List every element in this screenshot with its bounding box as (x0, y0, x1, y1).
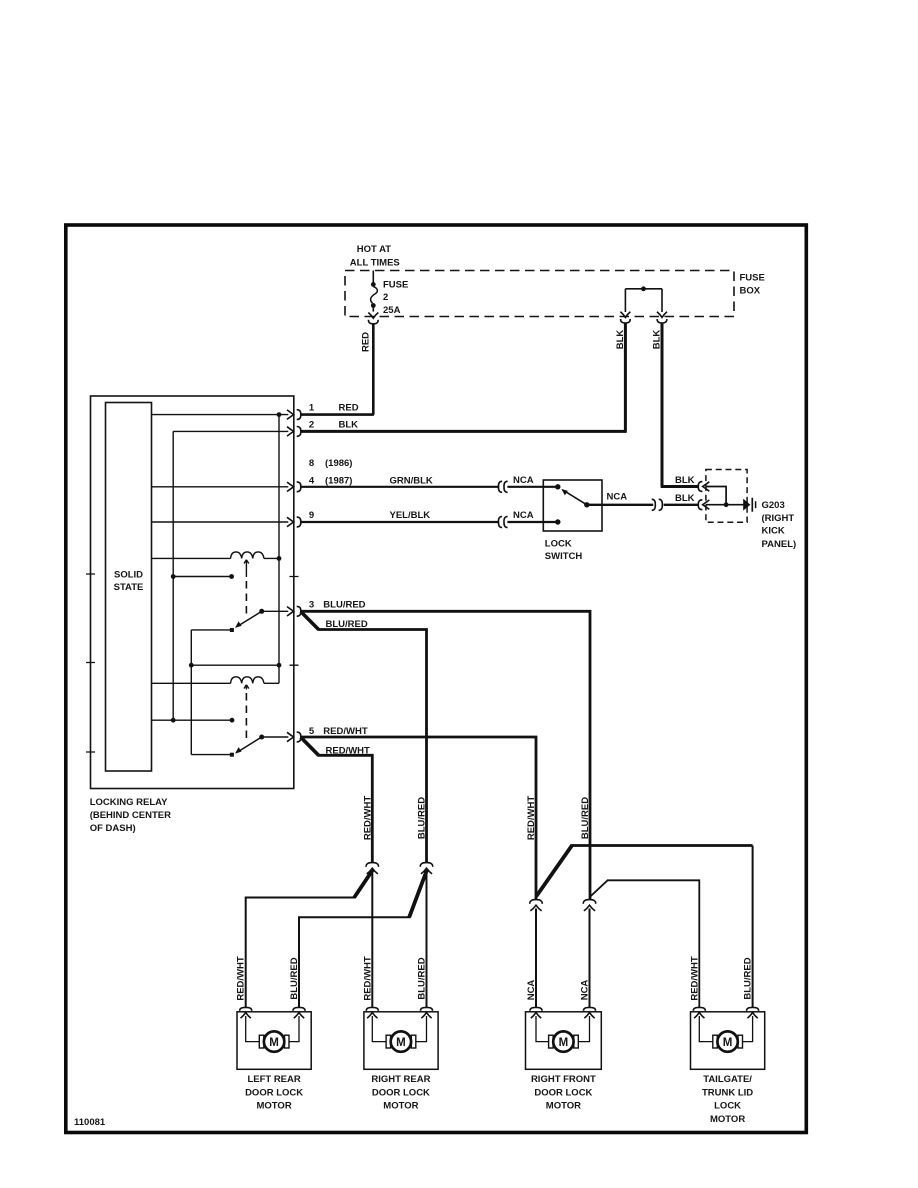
svg-text:NCA: NCA (513, 475, 534, 486)
svg-text:(1986): (1986) (325, 458, 352, 469)
svg-text:M: M (396, 1037, 406, 1049)
svg-text:RIGHT FRONT: RIGHT FRONT (531, 1074, 596, 1085)
svg-text:4: 4 (309, 475, 315, 486)
svg-text:BLU/RED: BLU/RED (326, 619, 368, 630)
svg-text:KICK: KICK (762, 526, 785, 537)
svg-text:RED/WHT: RED/WHT (236, 956, 247, 1001)
svg-text:5: 5 (309, 726, 315, 737)
svg-text:GRN/BLK: GRN/BLK (390, 475, 433, 486)
svg-text:BLK: BLK (339, 419, 359, 430)
svg-text:(RIGHT: (RIGHT (762, 513, 795, 524)
svg-text:LOCK: LOCK (545, 539, 572, 550)
svg-text:YEL/BLK: YEL/BLK (390, 510, 431, 521)
svg-text:2: 2 (383, 292, 388, 303)
svg-text:NCA: NCA (526, 980, 537, 1001)
svg-text:LOCKING RELAY: LOCKING RELAY (90, 797, 168, 808)
svg-text:RED/WHT: RED/WHT (326, 746, 371, 757)
svg-text:BLK: BLK (675, 493, 695, 504)
svg-text:DOOR LOCK: DOOR LOCK (534, 1087, 592, 1098)
svg-text:MOTOR: MOTOR (257, 1101, 292, 1112)
svg-text:2: 2 (309, 419, 314, 430)
svg-text:PANEL): PANEL) (762, 539, 797, 550)
svg-text:FUSE: FUSE (740, 273, 765, 284)
svg-text:3: 3 (309, 599, 314, 610)
svg-text:BLU/RED: BLU/RED (323, 599, 365, 610)
svg-text:MOTOR: MOTOR (383, 1101, 418, 1112)
svg-text:MOTOR: MOTOR (710, 1114, 745, 1125)
svg-text:NCA: NCA (607, 492, 628, 503)
svg-text:SOLID: SOLID (114, 570, 143, 581)
svg-text:RED/WHT: RED/WHT (323, 726, 368, 737)
svg-text:FUSE: FUSE (383, 279, 408, 290)
svg-text:NCA: NCA (580, 980, 591, 1001)
svg-text:HOT AT: HOT AT (357, 244, 391, 255)
svg-text:TAILGATE/: TAILGATE/ (703, 1074, 752, 1085)
svg-text:110081: 110081 (74, 1117, 106, 1128)
svg-text:RIGHT REAR: RIGHT REAR (371, 1074, 430, 1085)
svg-text:RED/WHT: RED/WHT (526, 796, 537, 841)
svg-text:BLK: BLK (675, 475, 695, 486)
svg-text:TRUNK LID: TRUNK LID (702, 1087, 753, 1098)
svg-text:DOOR LOCK: DOOR LOCK (372, 1087, 430, 1098)
svg-text:NCA: NCA (513, 510, 534, 521)
svg-text:OF DASH): OF DASH) (90, 823, 136, 834)
svg-text:BLU/RED: BLU/RED (289, 957, 300, 999)
svg-text:BLK: BLK (615, 330, 626, 350)
svg-text:RED: RED (361, 332, 372, 352)
svg-text:M: M (559, 1037, 569, 1049)
svg-text:LOCK: LOCK (714, 1101, 741, 1112)
svg-text:RED: RED (339, 403, 359, 414)
svg-text:9: 9 (309, 510, 314, 521)
svg-text:1: 1 (309, 403, 315, 414)
svg-text:25A: 25A (383, 305, 401, 316)
svg-text:RED/WHT: RED/WHT (362, 796, 373, 841)
svg-text:BOX: BOX (740, 286, 761, 297)
svg-text:BLU/RED: BLU/RED (417, 797, 428, 839)
svg-text:M: M (269, 1037, 279, 1049)
svg-text:M: M (723, 1037, 733, 1049)
svg-text:BLU/RED: BLU/RED (417, 957, 428, 999)
svg-text:8: 8 (309, 458, 314, 469)
svg-text:SWITCH: SWITCH (545, 551, 583, 562)
svg-text:RED/WHT: RED/WHT (689, 956, 700, 1001)
svg-text:(1987): (1987) (325, 475, 352, 486)
svg-text:DOOR LOCK: DOOR LOCK (245, 1087, 303, 1098)
svg-text:LEFT REAR: LEFT REAR (247, 1074, 300, 1085)
svg-text:BLU/RED: BLU/RED (743, 957, 754, 999)
svg-text:G203: G203 (762, 500, 785, 511)
svg-text:ALL TIMES: ALL TIMES (350, 257, 400, 268)
svg-text:BLU/RED: BLU/RED (580, 797, 591, 839)
svg-text:STATE: STATE (114, 582, 144, 593)
svg-text:BLK: BLK (652, 330, 663, 350)
svg-text:(BEHIND CENTER: (BEHIND CENTER (90, 810, 171, 821)
svg-text:RED/WHT: RED/WHT (362, 956, 373, 1001)
svg-text:MOTOR: MOTOR (546, 1101, 581, 1112)
